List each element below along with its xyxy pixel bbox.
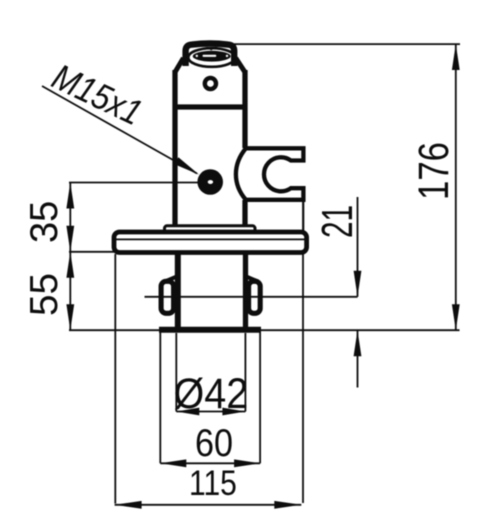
dimension line 60	[160, 462, 260, 464]
svg-text:Ø42: Ø42	[174, 370, 249, 418]
dimension line 35/55	[69, 183, 71, 331]
svg-text:35: 35	[23, 201, 67, 243]
extension line Ø42 left	[175, 333, 177, 412]
body right wall below bracket	[242, 200, 247, 232]
svg-text:21: 21	[312, 205, 361, 238]
left nub	[161, 281, 174, 313]
body left wall upper	[172, 70, 177, 232]
arrowhead 115 right	[274, 501, 301, 509]
nub center line (21 extension)	[145, 296, 358, 298]
svg-text:60: 60	[195, 421, 233, 464]
cap lens (dark)	[193, 51, 231, 62]
cap inner ellipse	[188, 48, 235, 67]
dimension line 176	[455, 44, 457, 330]
cap dark dot top	[210, 47, 213, 50]
body horizontal line	[173, 104, 248, 109]
svg-text:115: 115	[189, 463, 237, 503]
arrowhead 21 top (pointing down)	[354, 271, 362, 297]
screw hole ring	[205, 78, 216, 89]
shared extension line bottom (55 / 21 / 176)	[69, 329, 460, 331]
bracket pedestal right edge	[302, 200, 304, 231]
flange	[114, 232, 307, 253]
arrowhead 176 top	[452, 44, 460, 70]
flange inner line	[116, 238, 306, 240]
extension line 176 top	[234, 43, 460, 45]
hole M15x1 (filled)	[197, 169, 223, 195]
cap shoulder left	[175, 58, 184, 73]
cap shoulder right	[236, 58, 246, 73]
arrowhead 176 bottom	[452, 304, 460, 330]
extension line 115 right	[302, 201, 304, 503]
cap slit (white)	[203, 55, 217, 57]
arrowhead 21 bottom (pointing up)	[354, 330, 362, 356]
leader line M15x1	[42, 86, 197, 174]
arrowhead 55 bottom (pointing down)	[66, 304, 74, 330]
arrowhead Ø42 left	[176, 408, 199, 416]
bottom bar	[159, 327, 261, 333]
body right wall upper	[242, 70, 247, 148]
flange lip	[165, 226, 256, 233]
arrowhead 60 left	[160, 459, 186, 467]
right nub	[249, 281, 261, 313]
extension line flange bottom left (35/55 boundary)	[69, 251, 117, 253]
dimension line 21 lower segment	[357, 330, 359, 387]
hole center fleck	[208, 180, 213, 184]
arrowhead 55 top (pointing up)	[66, 252, 74, 278]
extension line Ø42 right	[244, 333, 246, 412]
body left wall lower	[175, 253, 181, 327]
left flare	[165, 276, 178, 282]
cap white dot right	[226, 55, 228, 57]
arrowhead 115 left	[115, 501, 142, 509]
extension line hole center (35 top)	[69, 182, 198, 184]
svg-text:176: 176	[411, 142, 458, 200]
dimension line Ø42	[176, 411, 245, 413]
extension line 115 left	[114, 254, 116, 504]
dimension line 21 upper segment	[357, 197, 359, 297]
arrowhead 35 top (pointing up)	[66, 183, 74, 209]
arrowhead 60 right	[234, 459, 260, 467]
arrowhead Ø42 right	[222, 408, 245, 416]
svg-text:55: 55	[23, 273, 66, 316]
dimension line 115	[115, 504, 302, 506]
arrowhead 35 bottom (pointing down)	[66, 226, 74, 252]
cap white dot left	[196, 55, 198, 57]
holder bracket	[236, 148, 304, 200]
body right wall lower	[243, 253, 248, 327]
extension line 60 right	[259, 328, 261, 463]
leader arrowhead	[175, 157, 200, 174]
extension line 60 left	[159, 328, 161, 463]
cap outline	[186, 44, 235, 67]
right flare	[245, 276, 258, 282]
